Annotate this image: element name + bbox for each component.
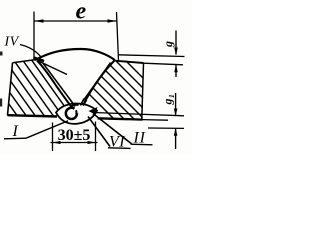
II underline bbox=[131, 143, 153, 146]
30±5 right extension bbox=[95, 122, 97, 152]
leader IV bbox=[20, 45, 42, 58]
right groove face line bbox=[82, 63, 111, 104]
svg-text:30±5: 30±5 bbox=[58, 127, 91, 144]
slag spiral ring inside bead bbox=[66, 108, 77, 119]
g1 text bbox=[161, 94, 177, 105]
30±5 dimension line bbox=[51, 142, 98, 144]
leader arrowhead at bead bbox=[89, 107, 98, 115]
arrow 30±5 left bbox=[53, 141, 61, 144]
g1 dimension vertical bottom bbox=[175, 129, 177, 150]
root bead eye white fill bbox=[56, 103, 97, 123]
hatch right plate bbox=[50, 55, 186, 121]
groove line tips over bead top-left bbox=[69, 98, 75, 107]
right plate right edge bbox=[142, 63, 144, 119]
dimension line e bbox=[35, 20, 117, 22]
scan speck lower left margin bbox=[0, 99, 2, 107]
right plate bottom thin continuation bbox=[143, 119, 169, 122]
left plate left edge bbox=[8, 63, 13, 115]
svg-text:g: g bbox=[161, 99, 175, 106]
left groove face line bbox=[43, 63, 77, 108]
I leader bbox=[26, 121, 68, 138]
g1 lower extension line bbox=[148, 127, 184, 129]
left groove fusion curve bbox=[37, 61, 72, 107]
g dimension vertical bottom bbox=[175, 65, 177, 77]
arrow 30±5 right bbox=[88, 141, 96, 144]
spiral inner curl bbox=[75, 110, 78, 114]
g1 dimension vertical top bbox=[175, 93, 177, 116]
right groove fusion curve bbox=[84, 61, 115, 105]
groove line tips over bead top-right bbox=[81, 99, 85, 106]
junction blob left shoulder bbox=[34, 58, 45, 62]
right plate bottom edge bbox=[98, 118, 143, 119]
I underline bbox=[4, 137, 26, 140]
right plate top edge bbox=[116, 61, 144, 63]
g upper extension line bbox=[118, 55, 185, 57]
extension line left (e) bbox=[33, 12, 35, 59]
scan speck upper left margin bbox=[0, 52, 3, 56]
extension line right (e) bbox=[117, 12, 119, 61]
svg-text:1: 1 bbox=[167, 94, 176, 98]
svg-text:e: e bbox=[76, 0, 87, 25]
left plate bottom edge bbox=[8, 115, 58, 116]
hatch left plate bbox=[0, 55, 93, 121]
II leader bbox=[93, 114, 132, 144]
VI underline bbox=[108, 147, 131, 150]
left shallow zone line bbox=[39, 61, 68, 75]
g dimension vertical top bbox=[175, 31, 177, 55]
svg-text:I: I bbox=[12, 123, 19, 140]
spiral tail bbox=[70, 105, 79, 108]
g1 upper extension line bbox=[93, 113, 184, 116]
weld cap bead bbox=[35, 49, 115, 60]
30±5 left extension bbox=[52, 123, 54, 152]
root bead eye outline bbox=[56, 103, 97, 123]
arrow e left bbox=[35, 19, 44, 23]
arrow e right bbox=[108, 19, 117, 23]
g lower extension line bbox=[144, 63, 184, 65]
VI leader bbox=[88, 117, 110, 147]
left plate top edge bbox=[13, 60, 37, 63]
svg-text:g: g bbox=[161, 41, 175, 48]
svg-text:IV: IV bbox=[4, 34, 20, 49]
